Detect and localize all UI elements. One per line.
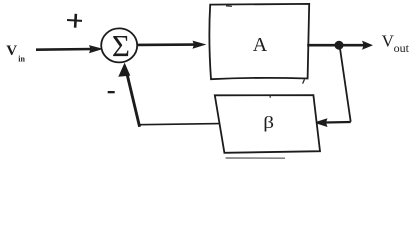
svg-text:Σ: Σ <box>112 28 130 63</box>
svg-text:in: in <box>18 55 25 64</box>
svg-text:V: V <box>6 43 17 59</box>
svg-text:A: A <box>253 34 268 56</box>
svg-text:out: out <box>394 41 410 55</box>
svg-text:β: β <box>263 114 274 133</box>
